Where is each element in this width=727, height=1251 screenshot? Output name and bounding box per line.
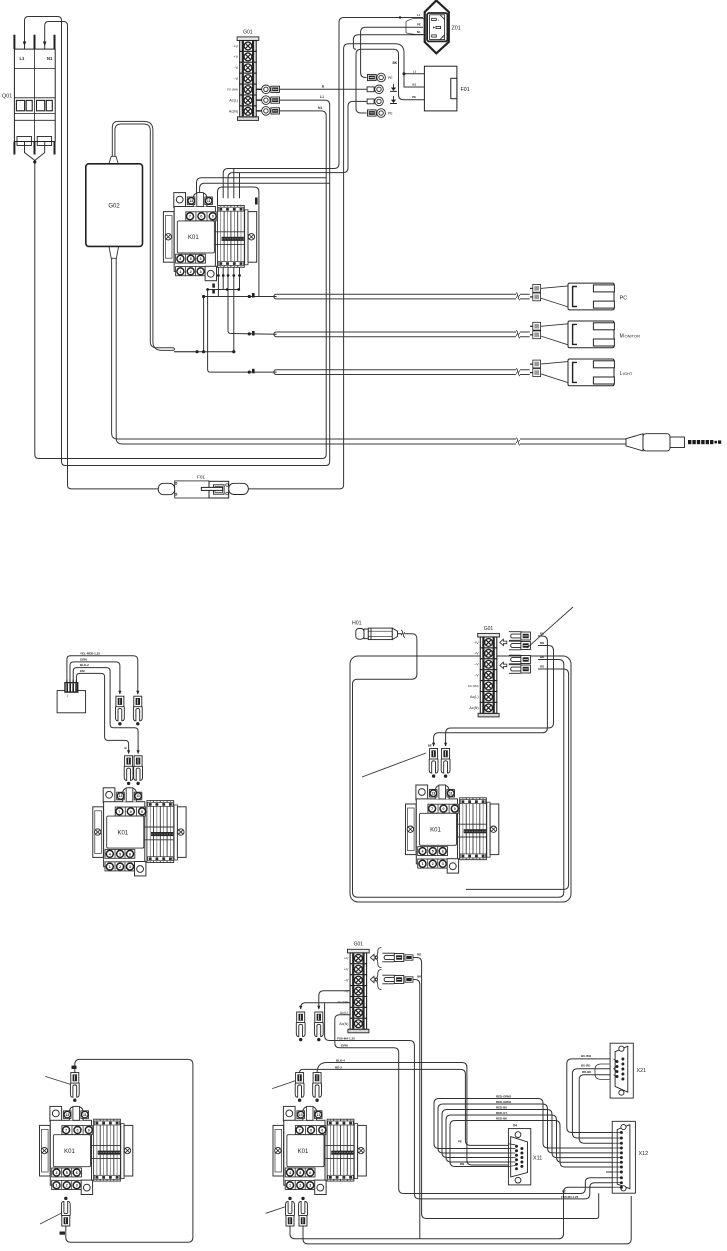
svg-text:PE: PE — [417, 22, 421, 26]
svg-text:G01: G01 — [484, 626, 494, 632]
svg-text:G01: G01 — [243, 30, 253, 36]
svg-text:X4: X4 — [513, 1124, 517, 1128]
svg-text:RED-BK: RED-BK — [496, 1116, 508, 1120]
svg-text:RED-GRN2: RED-GRN2 — [496, 1100, 511, 1104]
svg-text:YEL-RED-1.25: YEL-RED-1.25 — [80, 651, 100, 655]
svg-text:Ac(L): Ac(L) — [229, 99, 238, 103]
svg-text:−V: −V — [344, 989, 349, 993]
svg-text:PE: PE — [458, 1139, 462, 1143]
svg-text:+V: +V — [344, 968, 349, 972]
svg-text:+V: +V — [474, 641, 479, 645]
svg-text:RED-GRN2: RED-GRN2 — [496, 1094, 511, 1098]
svg-text:F01: F01 — [197, 475, 205, 480]
svg-text:+V: +V — [344, 957, 349, 961]
svg-text:BU-RD: BU-RD — [581, 1064, 590, 1068]
svg-text:X21: X21 — [637, 1068, 647, 1074]
svg-text:BE: BE — [428, 744, 432, 748]
svg-text:N1: N1 — [412, 83, 416, 87]
svg-text:−V: −V — [474, 674, 479, 678]
svg-text:GRN: GRN — [80, 657, 87, 661]
svg-text:IGHT: IGHT — [623, 371, 633, 376]
svg-text:Ac(N): Ac(N) — [469, 706, 478, 710]
svg-text:PE: PE — [562, 1189, 566, 1193]
svg-text:FG (M4): FG (M4) — [468, 684, 479, 688]
svg-text:H01: H01 — [352, 621, 362, 627]
svg-text:Ac(N): Ac(N) — [229, 110, 238, 114]
svg-text:PE: PE — [388, 112, 393, 116]
svg-text:X11: X11 — [533, 1156, 542, 1162]
svg-text:RD: RD — [540, 665, 544, 669]
svg-text:RN: RN — [460, 1162, 464, 1166]
svg-text:L1: L1 — [417, 13, 421, 17]
svg-text:BU-WH: BU-WH — [581, 1054, 591, 1058]
svg-text:EM: EM — [80, 669, 85, 673]
svg-text:Q01: Q01 — [2, 94, 12, 100]
svg-text:Ac(L): Ac(L) — [470, 695, 479, 699]
svg-text:Ac(L): Ac(L) — [340, 1011, 349, 1015]
svg-text:PC: PC — [620, 296, 628, 302]
svg-text:BLK-4: BLK-4 — [336, 1058, 345, 1062]
svg-text:G02: G02 — [108, 204, 120, 210]
svg-text:+V: +V — [474, 652, 479, 656]
svg-text:PE: PE — [412, 95, 416, 99]
svg-text:N1: N1 — [417, 30, 421, 34]
svg-text:L1: L1 — [320, 95, 324, 99]
svg-text:RED-BU: RED-BU — [496, 1105, 507, 1109]
svg-text:−V: −V — [234, 66, 239, 70]
svg-text:ONITOR: ONITOR — [625, 333, 641, 338]
svg-text:N: N — [442, 35, 444, 39]
svg-text:+V: +V — [234, 55, 239, 59]
svg-text:RD: RD — [540, 641, 544, 645]
svg-text:BLK-2: BLK-2 — [80, 663, 89, 667]
svg-text:BK: BK — [393, 61, 398, 65]
svg-text:PE: PE — [388, 76, 393, 80]
svg-text:−V: −V — [234, 77, 239, 81]
svg-text:Ac(N): Ac(N) — [339, 1022, 348, 1026]
svg-text:−V: −V — [474, 663, 479, 667]
svg-text:RD-BK: RD-BK — [582, 1070, 592, 1074]
svg-text:N1: N1 — [318, 106, 322, 110]
svg-text:FG (M4): FG (M4) — [338, 1000, 349, 1004]
svg-text:L1: L1 — [413, 69, 417, 73]
svg-text:L1: L1 — [20, 56, 26, 61]
svg-text:Z01: Z01 — [452, 26, 461, 32]
svg-text:GRN: GRN — [341, 1044, 348, 1048]
svg-text:+V: +V — [234, 44, 239, 48]
svg-text:RD-2: RD-2 — [335, 1065, 342, 1069]
svg-text:G01: G01 — [354, 942, 364, 948]
svg-text:F01: F01 — [461, 87, 470, 93]
svg-text:FG8-M4-1.25: FG8-M4-1.25 — [337, 1036, 355, 1040]
svg-text:X12: X12 — [639, 1151, 649, 1157]
svg-text:FG8-M4-1.25: FG8-M4-1.25 — [561, 1195, 579, 1199]
svg-text:−V: −V — [344, 979, 349, 983]
svg-text:M: M — [620, 333, 624, 339]
svg-text:FG (M4): FG (M4) — [227, 88, 238, 92]
svg-text:RED-GY: RED-GY — [496, 1111, 507, 1115]
svg-text:N1: N1 — [47, 56, 53, 61]
